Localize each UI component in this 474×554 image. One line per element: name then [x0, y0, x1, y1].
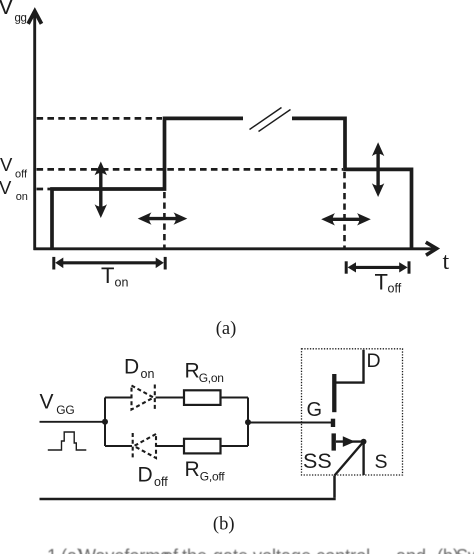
svg-text:Sw: Sw: [456, 546, 474, 554]
svg-text:D: D: [367, 350, 381, 372]
y-axis: [28, 11, 41, 250]
svg-text:T: T: [101, 263, 114, 288]
svg-text:on: on: [16, 191, 28, 203]
svg-text:G: G: [307, 399, 323, 421]
svg-text:V: V: [40, 391, 54, 414]
resistor RG,off: [184, 439, 221, 454]
label Von: [0, 177, 28, 203]
svg-text:V: V: [0, 0, 14, 19]
MOSFET source bar: [332, 433, 336, 450]
drain lead: [336, 350, 364, 383]
svg-text:G,on: G,on: [199, 371, 224, 385]
svg-text:off: off: [154, 475, 168, 489]
dashed top level line: [37, 117, 163, 120]
svg-text:the: the: [182, 546, 207, 554]
diode Don (dashed): [132, 385, 155, 411]
svg-text:on: on: [115, 276, 129, 290]
svg-text:of: of: [163, 546, 179, 554]
kelvin source diagonal: [335, 442, 364, 476]
svg-text:T: T: [375, 270, 388, 295]
svg-text:D: D: [138, 464, 153, 487]
vertical double arrow left: [95, 162, 107, 219]
bottom return wire: [40, 498, 336, 501]
svg-text:(b): (b): [213, 515, 235, 535]
source lead with body arrow: [336, 436, 362, 447]
svg-text:Waveforms: Waveforms: [79, 546, 169, 554]
pulse symbol: [48, 432, 87, 450]
input wire: [40, 421, 106, 423]
label Ton: [101, 263, 128, 290]
waveform segment left (Von level and step up): [52, 118, 243, 250]
label Toff: [375, 270, 402, 296]
junction node left: [102, 419, 108, 425]
label Don: [124, 355, 154, 381]
svg-text:GG: GG: [56, 403, 74, 417]
right branch vertical wire: [247, 398, 249, 447]
bottom branch wires: [105, 445, 248, 447]
svg-text:D: D: [124, 355, 139, 378]
source node dot: [361, 439, 367, 445]
horizontal double arrow left: [138, 212, 188, 224]
svg-text:gate voltage control: gate voltage control: [213, 546, 370, 554]
source terminal S line: [362, 442, 364, 475]
label VGG: [40, 391, 75, 418]
diode Doff (dashed): [133, 433, 156, 459]
svg-text:(a): (a): [216, 319, 237, 339]
axis label Vgg: [0, 0, 27, 24]
svg-text:1.: 1.: [47, 546, 62, 554]
svg-text:on: on: [141, 367, 155, 381]
svg-text:G,off: G,off: [200, 469, 225, 483]
kelvin source vertical: [333, 476, 336, 498]
svg-text:off: off: [388, 282, 402, 296]
label RG,off: [185, 458, 226, 483]
break slashes: [250, 108, 291, 132]
gate wire: [248, 422, 332, 424]
dashed package box: [302, 349, 403, 475]
svg-text:and: and: [396, 546, 426, 554]
top branch wires: [105, 397, 248, 399]
svg-text:off: off: [15, 169, 28, 181]
svg-text:t: t: [443, 249, 450, 275]
MOSFET channel drain bar: [332, 374, 336, 412]
MOSFET gate bar: [331, 419, 335, 427]
label Voff: [0, 154, 28, 181]
svg-text:V: V: [0, 154, 13, 175]
label RG,on: [185, 359, 224, 384]
waveform segment right (top level, Voff level, final drop): [292, 118, 412, 250]
junction node right: [245, 419, 251, 425]
t-axis: [34, 242, 437, 255]
dashed vertical at Toff start: [343, 172, 346, 248]
horizontal double arrow right: [321, 213, 371, 225]
resistor RG,on: [184, 390, 221, 405]
svg-text:SS: SS: [303, 449, 332, 473]
label Doff: [138, 464, 169, 490]
Ton dimension arrow: [54, 257, 165, 270]
svg-text:gg: gg: [15, 13, 27, 25]
Toff dimension arrow: [346, 261, 409, 273]
svg-text:S: S: [375, 451, 388, 473]
dashed vertical at Ton end: [163, 192, 166, 248]
svg-text:V: V: [0, 177, 12, 198]
dashed Voff level line: [37, 168, 344, 171]
svg-text:R: R: [185, 458, 200, 481]
dashed Von stub: [37, 188, 51, 191]
branch split vertical wire: [104, 398, 106, 447]
vertical double arrow right: [372, 142, 384, 197]
caption (clipped at bottom): [47, 546, 474, 554]
svg-text:R: R: [185, 359, 200, 382]
